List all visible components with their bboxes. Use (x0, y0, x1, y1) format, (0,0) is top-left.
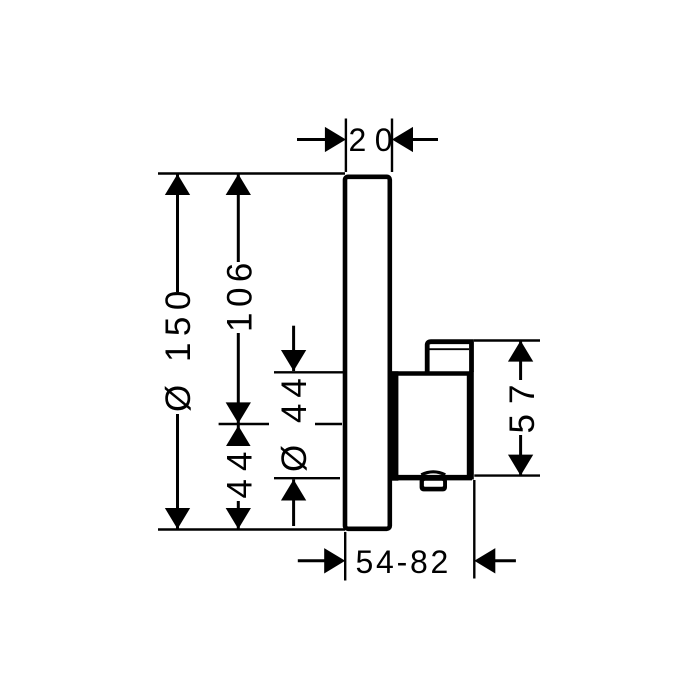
svg-text:Ø 150: Ø 150 (159, 284, 198, 412)
svg-text:Ø 44: Ø 44 (275, 372, 314, 472)
svg-text:57: 57 (503, 375, 542, 434)
extension line 54-82 left (344, 532, 346, 581)
extension line 57 bottom (474, 474, 540, 476)
extension line 20 right (391, 119, 393, 173)
handle cap inner line (430, 348, 470, 350)
svg-text:106: 106 (221, 257, 260, 332)
dimension d44 (handle diameter) (275, 326, 314, 526)
dimension 20 (plate thickness) (297, 122, 438, 158)
safety-stop button dome arc (421, 472, 445, 475)
handle body right edge (467, 372, 474, 480)
extension line top-left (plate top) (158, 172, 345, 174)
svg-text:20: 20 (349, 122, 401, 158)
extension line 20 left (345, 119, 347, 173)
handle body bottom edge (396, 475, 472, 481)
handle centerline tick right (315, 423, 342, 425)
handle body top edge (390, 371, 471, 376)
extension line 54-82 right (473, 480, 475, 579)
extension line 57 top (474, 339, 540, 341)
extension line bottom-left (plate bottom) (158, 528, 345, 530)
handle top tick (d44 upper) (274, 371, 343, 373)
safety-stop button tab (420, 477, 447, 491)
svg-text:44: 44 (221, 444, 260, 499)
plate (escutcheon side view) (345, 177, 390, 529)
handle bottom tick (d44 lower) (274, 477, 340, 479)
dimension d150 (plate diameter) (159, 174, 198, 529)
handle body left edge bar (390, 371, 398, 480)
handle centerline tick left (219, 423, 269, 425)
dimension 57 (handle depth) (503, 341, 542, 476)
dimension 54-82 (installation depth range) (298, 544, 516, 580)
dimension 106 and 44 (shared line) (221, 174, 260, 529)
svg-text:54-82: 54-82 (356, 544, 452, 580)
handle cap outline (427, 342, 471, 372)
